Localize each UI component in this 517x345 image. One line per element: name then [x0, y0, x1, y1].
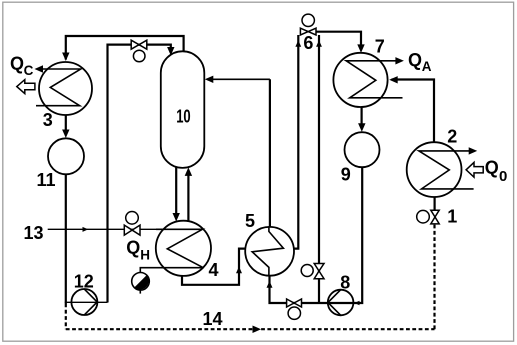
- control valve on pipe B: [131, 40, 147, 49]
- arrowhead right on HX2 coil: [469, 147, 478, 154]
- svg-text:Q: Q: [126, 237, 140, 257]
- svg-text:Q: Q: [485, 158, 499, 178]
- pump 12: [71, 289, 97, 315]
- wire: junction up to valve 6 right: [318, 35, 320, 303]
- vessel 9: [345, 132, 380, 167]
- svg-text:H: H: [140, 247, 150, 262]
- wire: line 13 heating supply: [48, 228, 157, 230]
- wire: HX7 bottom to vessel 9: [361, 107, 363, 128]
- svg-text:8: 8: [340, 273, 350, 293]
- control valve on line 13: [124, 225, 140, 235]
- HX4 coil: [140, 229, 203, 272]
- arrowhead up on HX5 bottom stub: [267, 281, 273, 288]
- svg-text:1: 1: [447, 207, 457, 227]
- svg-text:14: 14: [203, 309, 223, 329]
- arrowhead right on line 13: [83, 227, 89, 232]
- wire: HX5 right up to valve 6: [294, 35, 298, 249]
- arrowhead left into column 10: [205, 76, 214, 83]
- wire: HX2 top to HX7 right: [392, 80, 435, 143]
- HX5 coil: [252, 227, 283, 276]
- condenser HX3: [39, 62, 92, 115]
- burner symbol (half-filled circle): [132, 273, 150, 291]
- wire: HX2 bottom to valve 1: [434, 197, 436, 210]
- absorber HX7: [333, 53, 387, 107]
- pump 8: [328, 290, 354, 316]
- generator HX4: [156, 221, 211, 276]
- svg-text:9: 9: [341, 164, 351, 184]
- arrowhead up on riser to HX5: [236, 267, 242, 274]
- HX3 coil: [36, 69, 81, 106]
- svg-text:5: 5: [245, 211, 255, 231]
- arrowhead right on dashed line 14: [253, 326, 262, 334]
- svg-text:12: 12: [74, 271, 94, 291]
- Q0 block arrow: [466, 162, 483, 177]
- svg-text:3: 3: [43, 110, 53, 130]
- wire: valve 6 outlet to HX7 top: [316, 32, 361, 49]
- svg-text:A: A: [422, 59, 432, 74]
- svg-text:7: 7: [375, 36, 385, 56]
- arrowhead up below valve 6 left: [295, 40, 301, 46]
- arrowhead down into vessel 11: [62, 130, 69, 139]
- wire: vessel 11 down to pump 12 junction: [65, 174, 67, 303]
- arrowhead left on HX3 coil (Qc out): [35, 65, 44, 72]
- arrowhead down into HX3: [62, 53, 69, 62]
- arrowhead down into HX7: [357, 44, 364, 53]
- svg-text:0: 0: [499, 168, 507, 185]
- svg-text:2: 2: [447, 127, 457, 147]
- control valve on HX5 bottom run: [287, 299, 302, 307]
- svg-text:13: 13: [24, 223, 44, 243]
- wires: column 10 bottom to HX4 top (two parallel): [175, 167, 177, 217]
- arrowhead down into vessel 9: [358, 123, 365, 132]
- arrowhead left into HX7: [389, 76, 398, 83]
- dashed wire 14: pump12 junction down: [65, 304, 67, 330]
- svg-text:11: 11: [37, 170, 56, 190]
- evaporator HX2: [407, 142, 462, 197]
- wire: column 10 right side from HX5 top: [269, 79, 271, 226]
- svg-text:Q: Q: [10, 54, 24, 74]
- svg-text:C: C: [24, 63, 34, 78]
- wire: column10 top to condenser 3 (pipe A): [66, 36, 184, 60]
- arrowhead down into column 10 top: [167, 47, 174, 56]
- svg-text:10: 10: [176, 106, 191, 126]
- arrowhead left into pump 8: [354, 301, 359, 306]
- dashed wire 14: up to valve 1: [433, 224, 435, 329]
- valve 1: [431, 210, 439, 217]
- wire: HX5 bottom run to pump 8: [270, 167, 363, 303]
- valve 6: [300, 28, 316, 35]
- wire: pump 12 suction/discharge line: [65, 301, 108, 303]
- svg-text:4: 4: [209, 260, 219, 280]
- svg-text:Q: Q: [408, 50, 422, 70]
- wire: HX3 bottom to vessel 11: [65, 115, 67, 135]
- solution HX5: [245, 227, 294, 276]
- HX7 coil: [346, 61, 402, 98]
- svg-text:6: 6: [303, 33, 313, 53]
- column 10: [161, 51, 205, 168]
- Qc block arrow: [17, 80, 35, 94]
- dashed wire 14: bottom run: [66, 328, 435, 330]
- expansion valve on line to absorber (valve near 8): [314, 264, 324, 272]
- vessel 11: [48, 138, 84, 174]
- wire: pump12 up through valve into column10 (pipe B): [108, 45, 171, 303]
- wire: HX4 bottom to HX5 left: [182, 249, 245, 285]
- arrowhead right on HX7 coil (Qa out): [395, 57, 404, 64]
- arrowhead up below valve 6 right: [316, 40, 322, 46]
- HX2 coil: [419, 151, 474, 189]
